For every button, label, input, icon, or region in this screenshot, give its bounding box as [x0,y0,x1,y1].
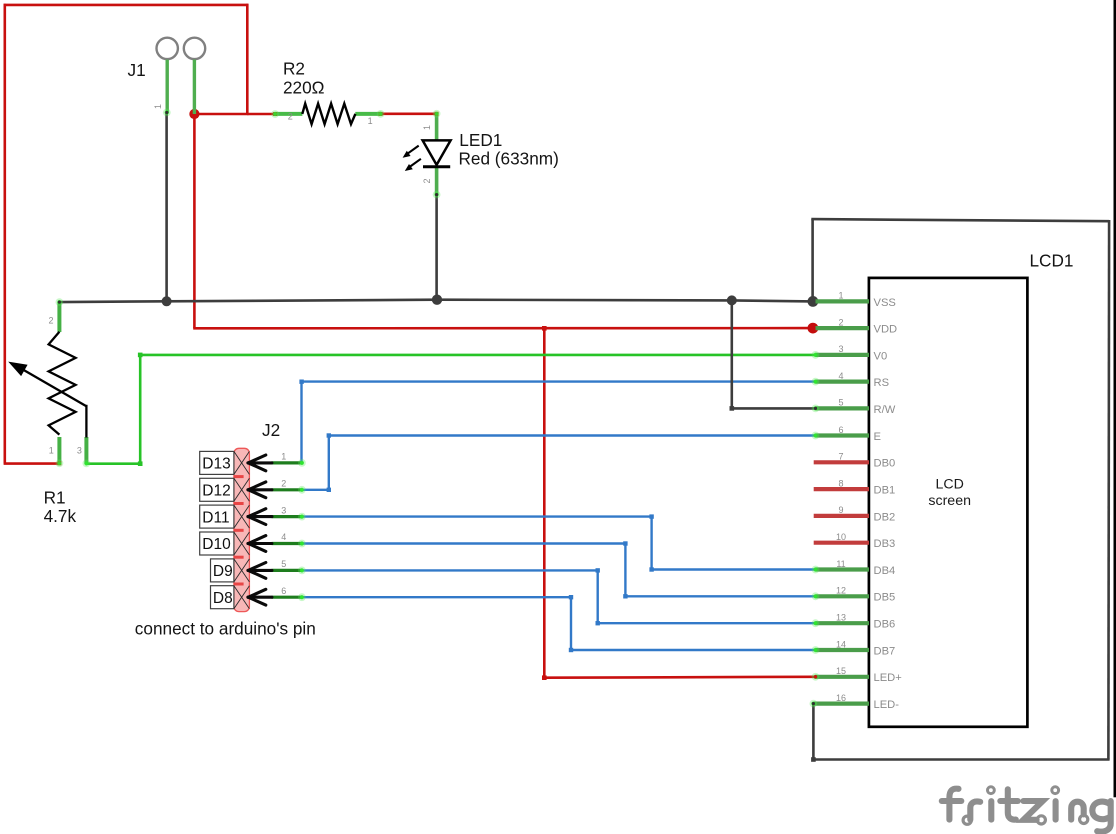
svg-text:2: 2 [838,317,843,327]
wire red net: left vertical [4,4,7,464]
wire black: R/W branch horizontal to pin [732,407,816,410]
svg-text:DB7: DB7 [874,645,896,657]
LCD1 pin 2 VDD stub [816,326,870,330]
node green corner square upper [138,353,143,358]
node red corner square at VDD branch top [542,326,547,331]
node blue corner squares D10 [623,541,627,545]
wire blue D9 to DB6: horizontal [302,569,598,571]
LCD1 pin 4 RS stub [816,380,870,384]
LCD1 pin 9 DB2 stub unconnected [814,514,869,518]
wire blue D11 to DB4: horizontal to pin [652,568,816,570]
svg-text:9: 9 [838,505,843,515]
connector J1 pin1 stub [165,60,168,113]
svg-text:VDD: VDD [874,324,898,336]
LCD1 pin 16 LED- stub [813,701,869,705]
node junction dot VSS [808,296,819,307]
wire blue D8 to DB7: horizontal to pin [571,649,816,651]
svg-text:DB2: DB2 [874,511,896,523]
node black corner square bottom [811,757,816,762]
node black corner square R/W [730,406,735,411]
svg-text:D12: D12 [202,483,230,500]
wire green net: V0 wire long horizontal to LCD V0 pin [140,354,816,357]
svg-text:1: 1 [838,291,843,301]
wire black frame: up to LED- pin [812,704,815,760]
node terminal glow J1 pin1 [163,109,171,117]
wire red net: branch vertical to LED+ row [543,328,546,677]
svg-text:R1: R1 [44,488,66,508]
potentiometer R1 pin2 stub (top) [57,302,61,332]
wire black frame: VSS junction up [811,219,814,301]
node terminal glow R2 pin1 [379,112,383,116]
wire black frame: bottom horizontal [813,758,1109,761]
wire blue D12 to E: vertical [328,436,330,490]
svg-text:DB6: DB6 [874,619,896,631]
connector J2 terminal glows [298,459,306,601]
LCD1 pin 11 DB4 stub [816,567,870,571]
connector J2 pin4 box D10 [200,532,234,555]
node red corner square at LED+ branch bottom [542,675,547,680]
svg-text:15: 15 [836,666,846,676]
connector J2 pin5 box D9 [211,559,234,582]
wire black: LED1 pin2 down to ground bus [435,195,438,300]
svg-text:2: 2 [422,178,432,183]
wire red net: branch horizontal to LCD LED+ pin [544,675,815,679]
svg-text:DB1: DB1 [874,485,896,497]
svg-text:LCD1: LCD1 [1030,250,1074,270]
svg-text:8: 8 [838,478,843,488]
LCD1 pin 7 DB0 stub unconnected [814,460,869,464]
svg-text:14: 14 [836,639,846,649]
wire blue D13 to RS: vertical [300,382,302,463]
wire blue D12 to E: horizontal [329,434,816,436]
svg-text:1: 1 [422,125,432,130]
wire blue D11 to DB4: vertical drop [650,517,652,570]
node junction dot VDD [808,323,819,334]
node terminal glow R1 pin3 [83,460,91,468]
wire red net: top horizontal [4,4,249,7]
LED LED1 cathode bar [423,165,450,168]
wire black: J1 pin1 down to ground bus [165,113,168,301]
fritzing watermark logo [942,787,1111,832]
LCD1 pin numbers [836,291,846,703]
LCD1 pin 14 DB7 stub [816,648,870,652]
svg-text:E: E [874,431,881,443]
node terminal glow R1 pin1 [57,461,61,465]
connector J2 red dash separators [234,475,244,478]
svg-text:4.7k: 4.7k [44,506,77,526]
wire blue D10 to DB5: horizontal [302,542,626,544]
node green corner square lower [138,461,143,466]
node blue corner squares D8 [569,595,573,599]
LCD1 pin 6 E stub [816,433,870,437]
LCD1 pin 8 DB1 stub unconnected [814,487,869,491]
resistor R2 zigzag body [302,104,355,125]
svg-text:5: 5 [838,398,843,408]
connector J2 pin2 box D12 [200,478,234,501]
LCD1 pin labels [874,297,902,711]
potentiometer R1 pin3 stub (wiper bottom) [84,437,88,464]
LCD1 body box [869,278,1028,727]
svg-text:4: 4 [838,371,843,381]
node junction dot ground bus at R/W branch [727,295,737,305]
LCD1 pin 15 LED+ stub [816,675,870,679]
potentiometer R1 wiper vertical [85,405,87,438]
svg-text:1: 1 [281,452,286,462]
svg-text:DB5: DB5 [874,592,896,604]
wire black ground bus across [60,300,813,302]
connector J2 X marks [234,451,250,608]
wire red net: vertical from junction down to VDD row [193,114,196,328]
resistor R2 pin2 stub [275,112,303,116]
node junction dot J1 pin2 / red net [189,109,199,119]
svg-text:6: 6 [281,586,286,596]
node blue corner square D13 [299,380,303,384]
wire blue D8 to DB7: horizontal [302,596,571,598]
LED LED1 emission arrow 1 [408,146,419,154]
connector J1 pin1 pad circle [157,38,178,59]
LCD1 pin 13 DB6 stub [816,621,870,625]
svg-text:DB4: DB4 [874,565,896,577]
node junction dot ground bus at J1 pin1 [162,296,172,306]
svg-text:D13: D13 [202,456,230,473]
svg-text:RS: RS [874,377,890,389]
connector J2 pin1 box D13 [200,451,234,474]
svg-text:2: 2 [281,479,286,489]
wire blue D10 to DB5: vertical drop [624,544,626,597]
wire green net: V0 wire vertical riser [139,355,142,464]
LED LED1 pin2 stub [435,166,439,195]
node terminal glow LED pin1 [435,112,439,116]
svg-text:screen: screen [928,493,971,509]
node blue corner squares D12 [327,488,331,492]
svg-text:3: 3 [838,344,843,354]
connector J2 pin3 box D11 [200,505,234,528]
svg-text:D8: D8 [213,590,233,607]
node terminal glow R1 pin2 [56,298,64,306]
svg-text:1: 1 [153,104,163,109]
potentiometer R1 pin1 stub (bottom left) [57,437,61,464]
wire blue D10 to DB5: horizontal to pin [625,595,815,597]
resistor R2 pin1 stub [355,112,381,116]
svg-text:3: 3 [281,505,286,515]
connector J2 pin6 box D8 [211,586,234,609]
svg-text:7: 7 [838,452,843,462]
svg-text:1: 1 [368,116,373,126]
LCD1 pin 5 R/W stub [816,406,870,410]
connector J1 pin2 stub [193,60,196,114]
wire blue D12 to E: stub-out horizontal [302,489,329,491]
wire red net: horizontal to LCD VDD pin [193,327,813,330]
wire blue D13 to RS: horizontal [302,380,816,382]
node blue corner squares D11 [649,514,653,518]
connector J2 input arrows [248,455,272,605]
svg-text:6: 6 [838,425,843,435]
potentiometer R1 zigzag body [49,332,76,435]
svg-text:13: 13 [836,613,846,623]
node terminal glow LED pin2 [433,191,441,199]
wire black frame: top horizontal [811,219,1109,221]
wire green net: V0 wire from R1 pin3 horizontal [86,462,140,465]
screen edge bar at right [1114,0,1116,797]
connector J1 pin2 pad circle [184,38,205,59]
potentiometer R1 wiper shaft [20,368,86,406]
LCD1 pin 10 DB3 stub unconnected [814,541,869,545]
node junction dot ground bus at LED [432,295,442,305]
svg-text:D10: D10 [202,536,231,553]
svg-text:2: 2 [288,111,293,121]
svg-text:VSS: VSS [874,297,896,309]
svg-text:12: 12 [836,586,846,596]
node blue corner squares D9 [596,568,600,572]
svg-text:5: 5 [281,559,286,569]
svg-text:LED-: LED- [874,699,900,711]
LCD1 pin 3 V0 stub [816,353,870,357]
connector J2 highlight column [234,448,250,611]
potentiometer R1 wiper arrowhead [8,362,27,377]
svg-text:11: 11 [836,559,845,569]
svg-text:LED+: LED+ [874,672,902,684]
svg-text:Red (633nm): Red (633nm) [459,148,559,168]
wire black: R/W branch vertical [730,300,733,408]
wire black frame: right vertical [1107,220,1110,760]
LCD1 pin 12 DB5 stub [816,594,870,598]
wire red net: bottom-left horizontal to R1 pin1 [4,462,60,465]
svg-text:D11: D11 [202,509,229,526]
svg-text:1: 1 [49,446,54,456]
svg-text:2: 2 [48,315,53,325]
svg-text:D9: D9 [213,563,233,580]
svg-text:J2: J2 [262,420,280,440]
LED LED1 pin1 stub [435,114,439,141]
connector J2 pin stubs [272,463,302,597]
LCD1 pin 1 VSS stub [816,299,870,303]
svg-text:DB0: DB0 [874,458,896,470]
svg-text:16: 16 [836,693,846,703]
svg-text:LED1: LED1 [459,130,502,150]
svg-text:R/W: R/W [874,404,896,416]
svg-text:4: 4 [281,532,286,542]
wire blue D8 to DB7: vertical drop [570,597,572,650]
svg-text:R2: R2 [283,59,305,79]
wire red net: horizontal into junction at J1 pin2 [193,113,248,116]
node terminal glow R2 pin2 [273,112,277,116]
wire blue D9 to DB6: horizontal to pin [598,622,816,624]
svg-text:DB3: DB3 [874,538,896,550]
svg-text:V0: V0 [874,350,888,362]
LED LED1 triangle [423,140,451,165]
LCD1 terminal glows [810,351,820,707]
wire red net: R2 pin1 to LED1 pin1 [381,113,438,116]
svg-text:LCD: LCD [936,477,964,493]
wire blue D9 to DB6: vertical drop [597,570,599,623]
svg-text:10: 10 [836,532,846,542]
svg-text:220Ω: 220Ω [283,78,325,98]
svg-text:J1: J1 [128,60,146,80]
svg-text:connect to arduino's pin: connect to arduino's pin [135,619,316,639]
connector J2 pin numbers [281,452,286,596]
svg-text:3: 3 [77,446,82,456]
wire red net: right vertical branch to R2 row [246,4,249,114]
wire red net: link bend to R2 pin2 [247,113,275,116]
LED LED1 emission arrow 2 [410,159,421,167]
wire blue D11 to DB4: horizontal [302,515,652,517]
